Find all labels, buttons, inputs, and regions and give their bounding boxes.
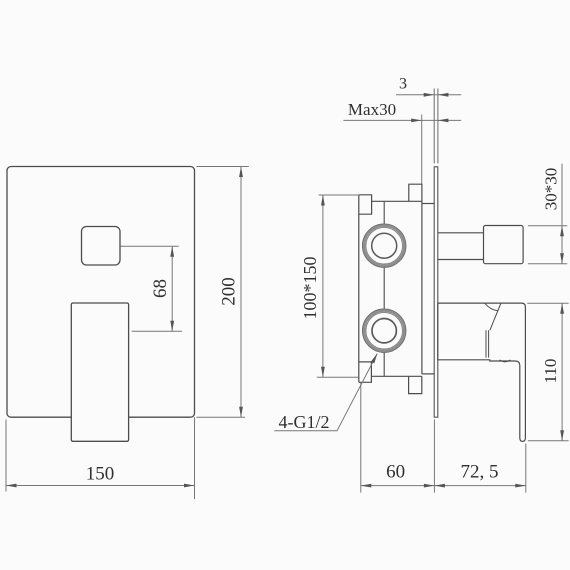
dimension 30*30: lower arrowhead (560, 253, 564, 264)
dimension 110: upper arrowhead (560, 303, 564, 314)
dimension 68: lower extension line (132, 330, 183, 332)
30x30 control block (484, 226, 524, 264)
svg-text:3: 3 (399, 76, 407, 93)
label 4-G1/2: leader line (274, 354, 377, 431)
dimension 72,5: right extension line (525, 444, 527, 493)
wall plate front view 150x200 (7, 167, 195, 418)
wall line (front) (433, 89, 435, 164)
top inlet port inner circle (372, 233, 397, 258)
dimension 68: upper arrowhead (170, 246, 174, 257)
dimension 200: dimension line (240, 167, 242, 418)
lever pivot screw arc (500, 360, 511, 362)
dimension 72,5: left arrowhead (434, 484, 445, 488)
diverter button square (82, 227, 121, 266)
top inlet port outer ring (364, 225, 405, 266)
dimension 68: extension line from button (121, 245, 179, 247)
pipe to control block bottom line (438, 259, 484, 261)
dimension 110: top extension line (527, 302, 569, 304)
wall line (back) (437, 89, 439, 164)
dimension 68: lower arrowhead (170, 321, 174, 332)
dimension 3: left arrowhead (424, 93, 435, 97)
dimension Max30: right arrowhead (438, 119, 449, 123)
dimension 3: dimension line (396, 94, 461, 96)
svg-text:110: 110 (541, 359, 560, 384)
dimension Max30: dimension line (343, 119, 461, 121)
dimension 150: right arrowhead (184, 484, 195, 488)
dimension 110: lower arrowhead (560, 430, 564, 441)
lever handle side view outline (438, 303, 526, 441)
dimension 3: right arrowhead (438, 93, 449, 97)
dimension 200: lower arrowhead (239, 407, 243, 418)
svg-text:60: 60 (386, 462, 405, 483)
dimension 100*150: dimension line (322, 195, 324, 377)
valve body bottom edge (371, 375, 421, 377)
dimension 110: bottom extension line (528, 440, 569, 442)
dimension 60/72,5: middle extension line (433, 420, 435, 493)
bottom-left mounting lug (359, 362, 372, 382)
dimension 100*150: lower arrowhead (321, 367, 325, 378)
dimension 30*30: bottom extension line (528, 263, 567, 265)
pipe to control block top line (438, 232, 484, 234)
dimension 100*150: top extension line (319, 194, 360, 196)
dimension 60/72,5: dimension line (361, 485, 526, 487)
dimension 68: dimension line (171, 246, 173, 331)
svg-text:4-G1/2: 4-G1/2 (279, 412, 330, 432)
dimension 72,5: right arrowhead (515, 484, 526, 488)
dimension 100*150: upper arrowhead (321, 195, 325, 206)
svg-text:68: 68 (150, 279, 171, 298)
dimension 150: left extension line (5, 420, 7, 492)
svg-text:150: 150 (86, 464, 115, 485)
label 4-G1/2: leader arrowhead (371, 353, 378, 363)
dimension 110: dimension line (561, 303, 563, 441)
bottom inlet port outer ring (364, 310, 405, 351)
lever neck top curve (485, 303, 498, 311)
dimension 60: left extension line (360, 383, 362, 493)
top-right connection stub (409, 184, 422, 201)
lever neck right line (488, 330, 490, 357)
plate edge-on side view (434, 167, 438, 417)
dimension 200: bottom extension line (197, 416, 246, 418)
dimension 200: upper arrowhead (239, 167, 243, 178)
dimension 150: right extension line (194, 417, 196, 499)
body-to-plate bottom connector (422, 373, 434, 375)
svg-text:200: 200 (219, 277, 240, 306)
dimension 60: left arrowhead (361, 484, 372, 488)
lever neck diagonal (490, 304, 501, 331)
dimension 30*30: top extension line (528, 225, 567, 227)
dimension Max30: left arrowhead (411, 119, 422, 123)
body-to-plate top connector (422, 203, 434, 205)
dimension 150: left arrowhead (6, 484, 17, 488)
valve body top edge (372, 200, 422, 202)
lever handle front view (71, 303, 128, 441)
dimension 150: dimension line (6, 485, 195, 487)
dimension 60: right arrowhead (424, 484, 435, 488)
lever neck left line (485, 330, 487, 357)
valve body left edge (358, 195, 360, 382)
svg-text:30*30: 30*30 (542, 168, 561, 211)
top-left mounting lug (359, 195, 372, 214)
dimension 200: top extension line (197, 166, 249, 168)
Max30 reference line (body face) (421, 115, 423, 185)
svg-text:Max30: Max30 (348, 100, 396, 119)
dimension 30*30: dimension line (561, 164, 563, 264)
dimension 30*30: upper arrowhead (560, 226, 564, 237)
svg-text:100*150: 100*150 (300, 257, 320, 320)
dimension 100*150: bottom extension line (317, 376, 358, 378)
bottom inlet port inner circle (372, 319, 396, 343)
body centre line segments (383, 201, 385, 376)
svg-text:72, 5: 72, 5 (461, 462, 499, 483)
bottom-right connection stub (409, 376, 422, 393)
valve body right edge (421, 201, 423, 374)
